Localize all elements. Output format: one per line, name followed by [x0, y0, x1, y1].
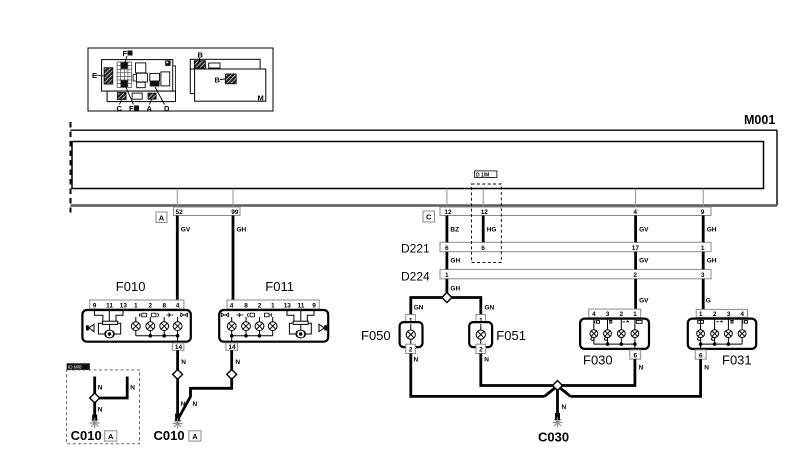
svg-text:GH: GH — [450, 286, 460, 293]
gray stub pin 52 — [176, 189, 178, 208]
F031 pin 6 box — [695, 350, 706, 359]
wire GV (pin4 to D221/17) — [636, 216, 650, 243]
wire N (F030 to C030) — [561, 359, 644, 385]
svg-text:B: B — [215, 76, 221, 85]
svg-text:8: 8 — [244, 302, 248, 309]
svg-text:ID M/8: ID M/8 — [68, 365, 82, 370]
F011 internal ground rail — [230, 334, 273, 342]
wire HG (pin12 to D221/6, optional) — [483, 216, 496, 243]
svg-text:3: 3 — [606, 311, 610, 318]
F050 pin 1 box — [406, 315, 416, 325]
F031 lamp 4 — [738, 317, 746, 344]
svg-text:A: A — [159, 213, 165, 222]
svg-text:14: 14 — [228, 344, 236, 351]
svg-text:N: N — [639, 365, 644, 372]
wire GH (pin9 to D221/1) — [703, 216, 717, 243]
svg-text:B: B — [198, 51, 204, 60]
svg-text:2: 2 — [149, 302, 153, 309]
F030 lamp 3 — [617, 318, 625, 344]
svg-text:9: 9 — [312, 302, 316, 309]
svg-text:F011: F011 — [265, 279, 294, 294]
gray stub pin 12b — [482, 189, 484, 208]
svg-text:F010: F010 — [116, 279, 146, 294]
svg-text:6: 6 — [634, 352, 638, 359]
F031 lamp 1 — [697, 317, 705, 344]
splice diamond F010 — [173, 369, 183, 379]
svg-text:1: 1 — [633, 311, 637, 318]
connector A row box (pins 52,99) — [174, 207, 241, 216]
svg-text:17: 17 — [632, 245, 640, 252]
connector C row box (pins 12,12,4,9) — [440, 207, 711, 216]
F050 body — [400, 322, 423, 347]
svg-text:2: 2 — [620, 311, 624, 318]
svg-text:3: 3 — [701, 272, 705, 279]
svg-text:E: E — [92, 71, 97, 80]
wire N (F031 to C030) — [571, 359, 710, 396]
F011 body — [219, 310, 328, 342]
F051 body — [469, 322, 492, 347]
bus M001 dashed left edge — [70, 122, 72, 213]
inset wire N right — [98, 377, 135, 399]
F011 lamp 4 — [268, 317, 277, 336]
F050 lamp — [406, 324, 415, 344]
svg-text:1: 1 — [699, 311, 703, 318]
svg-text:13: 13 — [284, 302, 292, 309]
F010 lamp 1 — [131, 317, 140, 336]
junction strip D221 — [401, 242, 711, 256]
wire GH (D221/6 to D224/1) — [447, 252, 461, 270]
F010 pin row (9 11 13 1 2 8 4) — [90, 300, 184, 309]
bus M001 inner frame — [72, 142, 764, 189]
inset: fuse row F label — [126, 88, 142, 114]
svg-text:F051: F051 — [496, 328, 526, 343]
svg-text:GV: GV — [639, 298, 649, 305]
svg-text:13: 13 — [120, 302, 128, 309]
F010 lamp 4 — [173, 317, 182, 336]
F010 lamp 3 — [160, 317, 169, 336]
F010 function icons — [139, 313, 187, 317]
wire N (F050 to C030) — [411, 354, 545, 397]
F011 pin 14 box — [226, 343, 238, 351]
F051 lamp — [476, 324, 485, 344]
ground point C030 — [553, 413, 563, 428]
svg-text:F031: F031 — [722, 353, 752, 368]
svg-text:C010: C010 — [154, 428, 185, 443]
svg-text:N: N — [193, 401, 198, 408]
wire N (splice to C010 ground) — [178, 378, 186, 420]
svg-text:N: N — [98, 407, 103, 414]
F030 function icons — [594, 320, 642, 323]
svg-text:9: 9 — [701, 209, 705, 216]
C030 splice crowfoot — [545, 381, 571, 397]
wire G (D224/3 to F031) — [703, 279, 711, 310]
svg-text:GV: GV — [639, 227, 649, 234]
svg-text:A: A — [108, 432, 114, 441]
svg-text:D224: D224 — [401, 270, 430, 284]
svg-text:C010: C010 — [71, 428, 102, 443]
svg-text:C: C — [117, 104, 123, 113]
F030 pin row (4 3 2 1) — [589, 309, 641, 318]
svg-text:F: F — [129, 104, 134, 113]
F011 lamp 3 — [255, 317, 264, 336]
svg-text:2: 2 — [633, 272, 637, 279]
svg-text:4: 4 — [740, 311, 744, 318]
svg-text:GH: GH — [450, 258, 460, 265]
location inset: fuse/relay box layout — [88, 48, 273, 111]
inset: relay D label pointer — [155, 87, 170, 113]
F051 pin 2 box — [476, 344, 486, 354]
junction strip D224 — [401, 269, 711, 283]
svg-text:11: 11 — [106, 302, 113, 309]
svg-text:4: 4 — [633, 209, 637, 216]
svg-text:1: 1 — [271, 302, 275, 309]
svg-text:G: G — [706, 298, 711, 305]
inset: connector B top (hatched) — [194, 51, 220, 69]
svg-text:GH: GH — [707, 227, 717, 234]
wire N (F010 pin14 to splice) — [178, 350, 187, 371]
connector C tag — [423, 211, 435, 222]
F030 lamp 4 — [631, 318, 639, 344]
F011 function icons — [222, 313, 272, 317]
wire BZ (pin12 to D221/6) — [447, 216, 459, 243]
F011 pin row (4 8 2 1 13 11 9) — [227, 300, 319, 309]
inset wire N to ground — [95, 402, 103, 420]
svg-text:GH: GH — [707, 258, 717, 265]
inset left unit: engine-bay fuse box outline — [102, 60, 176, 102]
svg-text:GN: GN — [485, 305, 495, 312]
svg-text:M: M — [258, 94, 264, 103]
svg-text:4: 4 — [230, 302, 234, 309]
inset wire N left — [95, 377, 103, 395]
svg-text:GN: GN — [414, 305, 424, 312]
svg-text:A: A — [147, 104, 153, 113]
inset: connector C (hatched) — [117, 93, 127, 114]
svg-text:N: N — [181, 359, 186, 366]
inset: fuse pointer label F — [123, 49, 133, 64]
svg-text:A: A — [192, 432, 198, 441]
svg-text:C: C — [426, 213, 432, 222]
F010 internal sensor circuit (pins 9,11,13) — [95, 310, 124, 338]
svg-text:99: 99 — [231, 209, 239, 216]
svg-text:N: N — [98, 385, 103, 392]
svg-text:4: 4 — [592, 311, 596, 318]
svg-text:GV: GV — [639, 258, 649, 265]
svg-text:2: 2 — [258, 302, 262, 309]
F011 speaker icon — [319, 324, 327, 331]
F030 pin 6 box — [630, 350, 641, 359]
splice diamond to F050/F051 — [411, 293, 495, 315]
svg-text:BZ: BZ — [450, 227, 459, 234]
F031 function icons — [698, 320, 748, 323]
F031 lamp 2 — [711, 317, 719, 344]
splice diamond F011 — [227, 369, 237, 379]
svg-text:11: 11 — [298, 302, 305, 309]
inset ground point C010 — [90, 415, 100, 429]
F010 body — [82, 310, 190, 342]
svg-text:6: 6 — [445, 245, 449, 252]
inset splice diamond — [90, 393, 100, 403]
wire N (F051 to C030) — [481, 354, 554, 386]
F010 internal ground rail — [136, 334, 180, 342]
inset ground label C010 — [71, 428, 117, 443]
wire GV (D224/2 to F030) — [636, 279, 650, 309]
F011 lamp 1 — [227, 317, 236, 336]
F031 pin row (1 2 3 4) — [696, 309, 747, 318]
F051 pin 1 box — [476, 315, 486, 325]
ground point C010 — [173, 414, 183, 429]
gray stub pin 4 — [635, 189, 637, 208]
inset right unit: lower panel — [195, 69, 266, 103]
F010 pin 14 box — [172, 343, 184, 351]
C010 detail inset (dashed) — [67, 363, 140, 444]
F030 lamp 1 — [590, 318, 598, 344]
inset: connector E (hatched) — [92, 68, 113, 84]
wire GH (D221/1 to D224/3) — [703, 252, 717, 270]
F031 body — [688, 319, 756, 349]
svg-text:HG: HG — [487, 227, 497, 234]
wire N (splice to C030 ground) — [558, 389, 567, 419]
svg-text:F030: F030 — [583, 353, 613, 368]
gray stub pin 9 — [702, 189, 704, 208]
wire N (F011 pin14 to splice) — [232, 350, 241, 371]
inset: fuse grid block — [117, 62, 132, 87]
connector A tag — [156, 212, 167, 223]
svg-text:2: 2 — [713, 311, 717, 318]
svg-text:6: 6 — [699, 352, 703, 359]
svg-text:N: N — [414, 357, 419, 364]
bus M001 outer frame — [71, 130, 778, 205]
svg-text:GV: GV — [181, 227, 191, 234]
F011 lamp 2 — [242, 317, 251, 336]
svg-text:1: 1 — [701, 245, 705, 252]
svg-text:1: 1 — [445, 272, 449, 279]
inset: center relay rects — [133, 63, 147, 88]
svg-text:12: 12 — [444, 209, 452, 216]
svg-text:12: 12 — [481, 209, 489, 216]
svg-text:3: 3 — [727, 311, 731, 318]
svg-text:GH: GH — [237, 227, 247, 234]
svg-text:1: 1 — [134, 302, 138, 309]
inset: right white rect — [161, 72, 170, 86]
svg-text:D 1/M: D 1/M — [476, 172, 489, 178]
svg-text:D221: D221 — [401, 242, 430, 256]
svg-text:14: 14 — [175, 344, 183, 351]
gray stub pin 12a — [446, 189, 448, 208]
svg-text:N: N — [130, 385, 135, 392]
svg-text:F050: F050 — [361, 328, 391, 343]
dashed option box around wire HG — [472, 171, 502, 263]
svg-text:N: N — [484, 357, 489, 364]
F010 speaker icon — [86, 324, 94, 331]
svg-text:N: N — [562, 404, 567, 411]
wire GH (D224/1 to splice) — [447, 279, 461, 294]
F031 lamp 3 — [725, 317, 733, 344]
inset: id tag black square — [165, 60, 170, 66]
wire GV (D221/17 to D224/2) — [636, 252, 650, 270]
F010 lamp 2 — [146, 317, 155, 336]
svg-text:8: 8 — [163, 302, 167, 309]
svg-text:6: 6 — [481, 245, 485, 252]
F030 body — [580, 319, 649, 349]
ground label C010 — [154, 428, 202, 443]
F011 internal sensor circuit (pins 13,11,9) — [287, 310, 314, 338]
svg-text:2: 2 — [479, 347, 483, 354]
svg-text:N: N — [704, 365, 709, 372]
svg-text:52: 52 — [176, 209, 184, 216]
wire GV (pin52 to F010) — [177, 216, 191, 301]
svg-text:C030: C030 — [538, 430, 569, 445]
svg-text:N: N — [235, 359, 240, 366]
svg-text:D: D — [164, 104, 170, 113]
wire N (F011 splice to C010 ground) — [178, 378, 231, 419]
svg-text:9: 9 — [93, 302, 97, 309]
F050 pin 2 box — [406, 344, 416, 354]
F030 internal ground rail — [594, 342, 637, 349]
inset right unit: dashboard outline — [190, 59, 260, 93]
svg-text:M001: M001 — [744, 113, 775, 127]
svg-text:4: 4 — [176, 302, 180, 309]
inset: connector A (hatched) — [147, 93, 157, 113]
F031 internal ground rail — [699, 342, 742, 349]
gray stub pin 99 — [232, 189, 234, 208]
svg-text:2: 2 — [409, 347, 413, 354]
wire GH (pin99 to F011) — [233, 216, 247, 301]
F030 lamp 2 — [604, 318, 612, 344]
inset: relay D (dark base) — [150, 73, 160, 86]
